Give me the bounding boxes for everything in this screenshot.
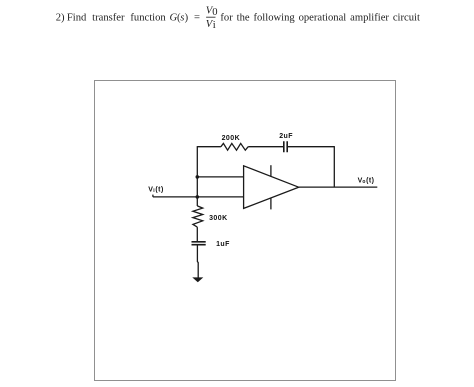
wire: input from Vi(t) xyxy=(153,195,244,197)
wire: feedback right vertical xyxy=(333,146,335,187)
figure frame xyxy=(95,81,396,381)
svg-text:(t): (t) xyxy=(366,177,374,184)
svg-text:1uF: 1uF xyxy=(216,241,230,248)
wire: feedback left vertical xyxy=(196,146,198,177)
svg-text:2uF: 2uF xyxy=(279,133,293,140)
resistor 200K (zigzag) xyxy=(221,143,248,150)
op-amp bottom power pin xyxy=(270,198,272,209)
resistor 300K (vertical zigzag) xyxy=(193,206,203,227)
label Vo(t) xyxy=(358,177,375,185)
svg-text:): ) xyxy=(185,12,189,23)
wire: resistor top lead xyxy=(196,197,198,206)
node: junction dot input node xyxy=(196,195,200,199)
capacitor 1uF (plates) xyxy=(192,242,206,245)
svg-text:Find transfer function: Find transfer function xyxy=(67,12,166,23)
svg-text:200K: 200K xyxy=(222,135,241,142)
wire: feedback top, middle segment xyxy=(248,146,283,148)
label Vi(t) xyxy=(148,187,164,195)
capacitor 2uF (plates) xyxy=(284,141,287,152)
wire: left vertical between inputs xyxy=(196,177,198,197)
wire: upper op-amp input xyxy=(197,176,243,178)
svg-text:i: i xyxy=(213,20,216,31)
svg-text:o: o xyxy=(362,179,365,185)
svg-text:=: = xyxy=(194,12,200,23)
wire: resistor to capacitor xyxy=(196,227,198,241)
svg-text:0: 0 xyxy=(212,7,217,18)
title text: question line xyxy=(56,6,420,31)
node: junction dot upper input xyxy=(196,175,200,179)
wire: capacitor to ground xyxy=(196,245,199,278)
svg-text:2): 2) xyxy=(56,12,65,23)
wire: feedback top, left segment xyxy=(197,146,221,148)
ground (arrowhead) xyxy=(192,277,203,282)
wire: feedback top, right segment xyxy=(288,146,334,148)
op-amp U1 (triangle) xyxy=(244,166,299,209)
svg-text:for the following operational: for the following operational amplifier … xyxy=(220,12,420,23)
wire: output to Vo(t) xyxy=(299,186,378,188)
svg-text:300K: 300K xyxy=(209,215,228,222)
op-amp top power pin xyxy=(270,165,272,176)
svg-text:(t): (t) xyxy=(155,187,163,194)
